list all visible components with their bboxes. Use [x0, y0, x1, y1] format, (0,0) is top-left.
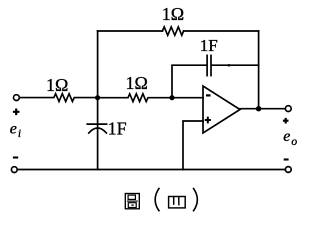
- plus sign output: [283, 118, 289, 124]
- svg-text:1F: 1F: [200, 36, 218, 55]
- minus sign output: [284, 158, 289, 160]
- resistor R3: [98, 94, 172, 102]
- bottom rail wire: [17, 169, 285, 171]
- minus sign input: [13, 156, 18, 158]
- node A junction dot: [95, 95, 100, 100]
- wire node B to op-amp inverting input: [172, 97, 203, 99]
- output terminal bottom-right: [285, 167, 291, 173]
- svg-text:1Ω: 1Ω: [46, 75, 68, 95]
- capacitor C1 straight plate: [87, 123, 106, 125]
- op-amp non-inverting marker: [205, 117, 211, 124]
- wire op-amp non-inverting input: [183, 121, 203, 170]
- svg-text:e: e: [283, 128, 290, 145]
- plus sign input: [13, 109, 20, 116]
- capacitor C2 right plate: [210, 55, 212, 75]
- capacitor C1 top lead: [97, 98, 99, 128]
- input terminal top-left: [14, 95, 20, 101]
- wire node A up to top rail: [97, 31, 99, 98]
- resistor R2 (top feedback): [162, 27, 183, 35]
- op-amp U1 triangle: [203, 86, 240, 133]
- svg-text:1Ω: 1Ω: [126, 73, 148, 93]
- wire right vertical of feedback down to output node: [258, 31, 260, 109]
- svg-text:o: o: [291, 136, 297, 148]
- svg-text:1Ω: 1Ω: [162, 4, 184, 24]
- svg-text:e: e: [10, 121, 17, 138]
- capacitor C1 curved plate: [89, 128, 107, 133]
- node B junction dot: [169, 95, 174, 100]
- input terminal bottom-left: [11, 167, 17, 173]
- resistor R1: [19, 94, 97, 102]
- op-amp inverting marker: [206, 94, 211, 96]
- caption character 圖: [125, 194, 139, 209]
- caption character 四: [169, 197, 186, 208]
- caption opening parenthesis: [155, 188, 159, 212]
- wire C2 to right vertical: [212, 64, 259, 66]
- svg-text:i: i: [18, 128, 21, 140]
- wire node B up to feedback capacitor C2: [172, 65, 206, 98]
- caption closing parenthesis: [193, 188, 197, 212]
- junction dot small on C2 wire: [227, 64, 230, 66]
- output terminal top-right: [285, 106, 291, 112]
- output junction dot: [256, 106, 261, 111]
- op-amp output wire: [240, 108, 285, 110]
- wire top rail left segment: [98, 30, 163, 32]
- capacitor C2 left plate: [206, 55, 208, 75]
- wire top rail right segment: [184, 30, 259, 32]
- capacitor C1 bottom lead: [97, 129, 99, 170]
- svg-text:1F: 1F: [108, 119, 127, 139]
